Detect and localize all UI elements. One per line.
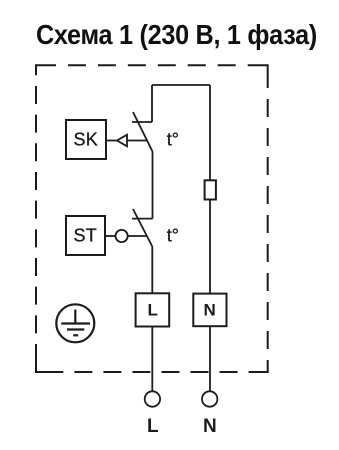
svg-text:L: L (147, 416, 159, 437)
thermostat contact t° (lower) (132, 209, 153, 247)
wire: resistor to terminal N block (209, 200, 211, 294)
resistor (heating element) (205, 180, 216, 199)
svg-text:L: L (148, 301, 158, 320)
wire: between thermostats (152, 152, 154, 219)
thermostat contact t° (upper) (132, 112, 153, 152)
device enclosure (dashed boundary) (36, 65, 268, 372)
terminal block N (193, 294, 226, 327)
wire: N block to terminal (209, 326, 211, 391)
component SK (sensor box) (66, 120, 106, 159)
mechanical linkage arrow from SK to upper contact (106, 135, 147, 147)
svg-text:t°: t° (167, 130, 179, 150)
wire: L block to terminal (151, 327, 153, 392)
terminal L (145, 391, 160, 437)
wire: right branch down to resistor (209, 85, 211, 180)
protective earth symbol (56, 304, 94, 342)
wire: left branch down to upper thermostat (151, 85, 153, 122)
svg-text:N: N (204, 301, 216, 320)
svg-text:ST: ST (74, 226, 97, 246)
svg-text:SK: SK (74, 130, 98, 150)
linkage from ST with actuator circle (105, 230, 147, 242)
svg-text:t°: t° (167, 226, 179, 246)
svg-text:N: N (203, 416, 217, 437)
wire: lower thermostat to terminal L block (151, 247, 153, 294)
terminal N (202, 391, 217, 437)
component ST (thermostat box) (66, 216, 105, 255)
schematic title (36, 19, 306, 51)
wire: top bus (152, 84, 210, 86)
terminal block L (136, 293, 170, 326)
